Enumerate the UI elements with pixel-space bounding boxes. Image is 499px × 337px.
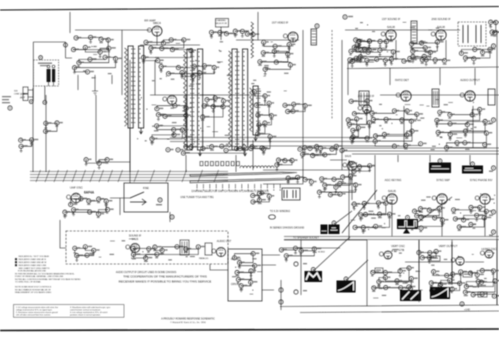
svg-text:2. Resistance values measured: 2. Resistance values measured to chassis… — [16, 311, 58, 314]
right edge part r4 — [491, 210, 495, 214]
wire 2nd IF coil drop — [348, 62, 374, 95]
svg-text:positions shown in normal oper: positions shown in normal operation. — [70, 313, 101, 316]
RF coil strip L1/L2 (wafer 1) — [125, 46, 144, 134]
fine tuning cap — [158, 198, 162, 202]
height adj box — [431, 256, 440, 261]
deflection bottom rails — [280, 305, 499, 313]
scope photo 2 (adjacent) — [321, 225, 328, 235]
wire IF bus top — [236, 12, 299, 40]
component cluster: horiz afc parts — [465, 271, 495, 295]
wire: audio B+ risers — [390, 68, 475, 85]
circled ref label near top — [343, 15, 347, 19]
svg-text:INDICATES B+ “HOT” VOLTAGE: INDICATES B+ “HOT” VOLTAGE — [19, 255, 50, 258]
wire video IF plate line — [302, 30, 304, 170]
svg-text:AUDIO OUT: AUDIO OUT — [217, 239, 232, 243]
svg-text:NOTED ALL CONTROLS NORMAL SETT: NOTED ALL CONTROLS NORMAL SETTING AT VOL… — [15, 278, 81, 281]
svg-text:TO SPEAKER SOCKET: TO SPEAKER SOCKET — [293, 236, 319, 239]
svg-text:300: 300 — [14, 91, 18, 93]
sync section left rail — [349, 160, 375, 236]
svg-text:with all tubes removed from th: with all tubes removed from their socket… — [16, 313, 51, 316]
svg-text:FINE: FINE — [143, 187, 149, 190]
balun label smudge — [38, 63, 52, 64]
component cluster: keying line — [288, 177, 311, 179]
svg-text:USE TUNER T71A AND T7B1: USE TUNER T71A AND T7B1 — [180, 196, 214, 199]
leader line to scope photo — [342, 190, 452, 233]
tube V6 1ST SOUND IF 6AU8 — [381, 25, 396, 40]
tube V12 SYNC PHASE INV — [475, 194, 490, 204]
component cluster: alt audio input — [75, 247, 94, 256]
wire 4.5mc stage feeds — [330, 160, 375, 200]
component cluster: 1st sound IF parts — [356, 41, 393, 57]
horiz drive adj box — [463, 272, 472, 277]
wire: bottom left drop — [33, 160, 46, 172]
svg-text:TO 6.3V WINDING: TO 6.3V WINDING — [270, 210, 290, 213]
wire video IF screen line — [341, 40, 343, 170]
svg-text:1. DC voltage measurements ta: 1. DC voltage measurements taken with vt… — [16, 306, 58, 309]
svg-text:6AF4A: 6AF4A — [84, 191, 95, 195]
component cluster: sound IF cathode row — [352, 58, 444, 61]
tube V18 4.5MC sound IF 6AU6 — [343, 161, 357, 170]
svg-text:AGC KEYING: AGC KEYING — [385, 178, 402, 182]
component cluster: RF amp grid/plate parts — [144, 40, 192, 61]
svg-text:VERT OUTPUT: VERT OUTPUT — [439, 244, 458, 248]
component cluster: 2nd IF coil group — [354, 40, 369, 49]
B+ feed component — [460, 302, 464, 306]
wire: right edge B+ rail — [496, 30, 498, 305]
scope photo: composite video — [329, 211, 353, 234]
trap top terminal — [315, 24, 319, 28]
tube V17 alt audio out 6AQ5 — [212, 247, 226, 256]
svg-text:6BC4: 6BC4 — [153, 21, 161, 25]
wire: right vertical trunk — [419, 240, 452, 290]
balun transformer black bars — [47, 69, 51, 82]
switch position ticks — [196, 184, 198, 189]
transformer windings — [284, 190, 296, 198]
component cluster: UHF osc parts — [65, 199, 108, 214]
svg-text:6SN7GTB: 6SN7GTB — [392, 248, 404, 252]
svg-text:RECEIVER MAKES IT POSSIBLE TO: RECEIVER MAKES IT POSSIBLE TO BRING YOU … — [119, 280, 212, 284]
component cluster: 2nd sound IF parts — [412, 42, 438, 57]
component cluster: video IF decoupling — [251, 92, 272, 149]
svg-text:4. Line voltage maintained at: 4. Line voltage maintained at 117v; all … — [70, 311, 107, 314]
component cluster: AGC keying parts — [354, 203, 389, 228]
scope photo stand — [403, 229, 410, 234]
right edge part r5 — [491, 230, 495, 234]
component cluster: ratio det output — [461, 49, 490, 58]
component cluster: volume control — [349, 101, 369, 138]
deflection section top rail (double) — [284, 237, 499, 240]
left margin tiny label — [2, 96, 11, 97]
svg-text:6AU6: 6AU6 — [388, 189, 396, 193]
wire: crt box link — [210, 264, 228, 270]
scope photo: vert sawtooth B — [430, 284, 450, 300]
component cluster: alt audio parts — [133, 247, 198, 258]
wire AGC bus — [250, 145, 375, 147]
component cluster: 4.5mc trap parts — [285, 104, 305, 111]
wire: IF grid returns — [155, 60, 250, 137]
component cluster: video det area — [303, 146, 337, 155]
IF trap T1 — [311, 29, 317, 45]
component cluster: audio output parts — [437, 110, 487, 148]
component cluster: converter plate circuit — [46, 123, 57, 131]
scope photo: horiz sweep — [337, 260, 369, 293]
channel selector switch shaft (lower bar) — [190, 178, 300, 182]
annotation texture: input filter — [93, 54, 97, 56]
svg-text:INDICATES CHAS GND AT M: INDICATES CHAS GND AT M — [19, 261, 47, 264]
IF coil strip L7 (wafer 4) — [250, 86, 261, 141]
tube V2 RF OSC 6AF4 — [163, 95, 177, 104]
alt audio output transformer — [205, 243, 212, 255]
sound IF transformer T-20 — [411, 21, 417, 43]
pilot lamp ellipse — [269, 215, 276, 219]
svg-text:REALIGNMENT OF VOLTAGES USED: REALIGNMENT OF VOLTAGES USED — [15, 291, 52, 294]
scope photo: sync pulse A — [429, 159, 451, 173]
svg-text:6AU6: 6AU6 — [345, 155, 352, 158]
component cluster: osc trimmer row — [277, 160, 292, 165]
svg-text:SELECTOR: SELECTOR — [215, 23, 227, 25]
component cluster: mixer input row — [212, 31, 253, 34]
component cluster: vert osc parts — [373, 268, 412, 288]
oscillator coil (scalloped) — [240, 166, 274, 168]
component cluster: rectifier filter — [253, 194, 269, 202]
RF coil strip L3/L4 (wafer 2) — [184, 49, 203, 156]
svg-text:PARALLEL: PARALLEL — [199, 257, 208, 260]
page top border rule — [0, 7, 499, 11]
annotation texture: alt audio box — [122, 240, 126, 241]
speaker terminal b — [279, 300, 283, 304]
sound IF section divider — [347, 67, 499, 69]
alt audio interstage transformer — [180, 240, 189, 255]
svg-text:CHANNEL: CHANNEL — [216, 19, 227, 22]
svg-text:A PROUDLY HOWARD RESPONSE: A PROUDLY HOWARD RESPONSE SCHEMATIC — [161, 318, 215, 321]
wire tuner left bus — [33, 88, 46, 160]
wire B+ bus 2 — [170, 141, 375, 143]
annotation texture: rf amp area — [160, 78, 162, 79]
svg-text:NO ALLOWANCE IN HIGH VALUE: NO ALLOWANCE IN HIGH VALUE OF — [15, 288, 51, 291]
annotation texture: deflection section — [420, 289, 422, 291]
component cluster: mixer grid parts — [161, 66, 214, 77]
wire antenna loop — [33, 42, 65, 95]
input zigzag coil — [251, 22, 254, 58]
switch index mark — [260, 191, 264, 195]
component cluster: oscillator parts — [152, 106, 186, 139]
wire oscillator bus — [150, 95, 215, 140]
tube V11 SYNC SEP 6AW8 — [432, 194, 447, 204]
wire RF amp to coils — [70, 12, 200, 95]
antenna terminal block — [23, 87, 28, 94]
right edge transformer — [488, 89, 495, 105]
component cluster: 4.5mc amp parts — [319, 176, 355, 195]
power transformer box — [282, 188, 300, 200]
svg-text:OHM: OHM — [14, 94, 19, 96]
scope photo: sync pulse B — [462, 162, 483, 174]
RF coil strip L5/L6 (wafer 3) — [229, 49, 248, 156]
svg-text:3. Waveforms taken with wide: 3. Waveforms taken with wide band scope;… — [70, 306, 110, 309]
annotation texture: tuner osc area — [188, 136, 193, 137]
speaker jack parts — [294, 262, 298, 266]
wire channel selector drop — [220, 27, 222, 40]
component cluster: CRT socket parts — [235, 254, 255, 286]
right edge part r3 — [491, 166, 495, 170]
wire: tuner to IF link — [236, 140, 303, 184]
svg-text:SYNC SEP: SYNC SEP — [436, 178, 450, 182]
svg-text:2ND SOUND IF: 2ND SOUND IF — [432, 17, 451, 21]
svg-text:+140: +140 — [464, 308, 470, 312]
svg-text:1ST SOUND IF: 1ST SOUND IF — [382, 17, 401, 21]
component cluster: vert int parts — [419, 252, 436, 258]
tube V16 alt sound IF 6AU6 — [126, 243, 140, 252]
svg-text:INDICATES CHAS GND AT B: INDICATES CHAS GND AT B — [19, 258, 47, 261]
deflection section left rail — [366, 240, 368, 306]
annotation texture: video IF col — [284, 73, 288, 74]
tube V14 VERT OUTPUT 6AQ5 — [451, 257, 464, 265]
svg-text:IN THIS RECEIVER ALL DC VOLTA: IN THIS RECEIVER ALL DC VOLTAGES MEASURE… — [15, 272, 75, 275]
wire UHF osc output — [110, 198, 130, 215]
wiring harness bundle (hatched) — [30, 172, 228, 181]
ratio detector transformer (dashed shield) — [458, 22, 486, 46]
wire: bottom bus risers — [375, 155, 470, 165]
svg-text:1ST VIDEO IF: 1ST VIDEO IF — [272, 21, 289, 25]
annotation texture: sync section — [426, 196, 430, 197]
component cluster: 1st video IF parts — [260, 42, 291, 69]
annotation texture: audio section — [417, 120, 421, 121]
speaker terminal a — [279, 288, 283, 292]
wire antenna feeds — [28, 86, 45, 101]
wire B+ bus 1 — [170, 137, 375, 139]
component cluster: sound takeoff coil area — [348, 119, 358, 137]
vert lin adj box — [375, 268, 383, 273]
svg-text:SYNC PHASE INV: SYNC PHASE INV — [470, 178, 493, 182]
component cluster: phase inv parts — [454, 208, 487, 228]
wire focus line — [280, 280, 282, 310]
svg-text:© Howard W. Sams & Co., Inc. 1: © Howard W. Sams & Co., Inc. 1954 — [170, 321, 206, 324]
ground symbol below RF filter — [92, 88, 98, 95]
scope photo: video waveform at sync sep — [397, 216, 418, 230]
svg-text:UHF OSC: UHF OSC — [70, 186, 83, 190]
svg-text:POINT OF RESIDUAL GENERAL. US: POINT OF RESIDUAL GENERAL. USE VTVM LINE — [15, 275, 64, 278]
page bottom border rule — [0, 329, 499, 331]
right edge part r1 — [491, 44, 495, 48]
wire: IF to sync link — [303, 169, 349, 171]
scope photo: vert sawtooth A — [400, 287, 421, 302]
svg-text:control locked, contrast at ma: control locked, contrast at maximum. — [70, 308, 101, 311]
wire: tuner AGC runs — [96, 95, 130, 172]
svg-text:AUDIO OUTPUT: AUDIO OUTPUT — [460, 78, 480, 82]
sound takeoff transformer — [359, 91, 369, 105]
annotation texture: crt box — [252, 290, 253, 291]
tube V1 RF AMP 6BC4 — [147, 21, 162, 36]
tube V9 AUDIO OUTPUT 6AQ5 — [460, 91, 475, 101]
component cluster: sound takeoff — [350, 50, 361, 60]
tube V10 AGC KEYING 6AU6 — [382, 189, 397, 204]
annotation texture: sound IF strip — [426, 52, 430, 53]
left margin component — [8, 106, 12, 110]
ratio det coils — [463, 25, 481, 43]
balun shield box (dashed) — [33, 60, 58, 86]
wire: agc return — [284, 236, 367, 240]
ant lead part a — [29, 100, 33, 104]
audio output transformer — [432, 89, 439, 107]
wire: video out to CRT — [263, 170, 303, 184]
svg-text:RED-BLK: RED-BLK — [231, 259, 241, 261]
component cluster: mixer parts — [203, 98, 224, 117]
wire RF filter verticals — [66, 58, 113, 90]
channel selector strip box — [216, 19, 229, 28]
svg-text:THE COOPERATION OF THE MANUFAC: THE COOPERATION OF THE MANUFACTURERS OF … — [123, 275, 207, 279]
alternate audio circuit box (dashed) — [66, 231, 228, 264]
wire heater bus — [342, 148, 499, 154]
wire: main vertical trunk left — [130, 60, 186, 183]
tube V4 1ST VIDEO IF 6AU6 — [283, 32, 298, 42]
width adj box — [478, 292, 487, 297]
svg-text:2ND VIDEO IF: 2ND VIDEO IF — [358, 95, 375, 98]
svg-text:6AU8: 6AU8 — [387, 25, 395, 29]
fine tuning terminal — [170, 215, 174, 219]
svg-text:RATIO DET: RATIO DET — [395, 78, 409, 82]
component cluster: sync sep parts — [413, 208, 443, 226]
antenna loop corner terminal — [64, 43, 68, 47]
wire: vert output link — [405, 261, 484, 263]
tube V5 2ND VIDEO IF 6CB6 — [358, 105, 371, 114]
svg-text:voltage maintained at 117v; no: voltage maintained at 117v; no signal in… — [16, 308, 53, 311]
svg-text:INDICATES CHAS GND LINE: INDICATES CHAS GND LINE — [19, 264, 47, 267]
component cluster: antenna coupling — [21, 140, 32, 146]
wire fine tuning drop — [169, 212, 171, 222]
wire yoke leads — [262, 255, 280, 290]
wire: sync to deflection drops — [392, 205, 485, 236]
svg-text:HORIZ: HORIZ — [318, 252, 325, 254]
svg-text:SOUND IF: SOUND IF — [129, 234, 142, 238]
tube V8 1ST AUDIO 6AV6 — [396, 91, 411, 101]
svg-text:TO GRID FULL OF SIGNAL: TO GRID FULL OF SIGNAL — [15, 281, 42, 284]
svg-text:FOR RE-INSTALLATION USE: FOR RE-INSTALLATION USE — [18, 270, 46, 273]
component cluster: vert output parts — [431, 272, 460, 292]
svg-text:GRN-BLK: GRN-BLK — [231, 284, 242, 286]
component cluster: speaker coupling — [281, 248, 314, 256]
ant lead part b — [43, 101, 47, 105]
svg-text:AUDIO OUTPUT IF CIRCUIT US: AUDIO OUTPUT IF CIRCUIT USED IN SOME CHA… — [116, 271, 177, 274]
tube V7 2ND SOUND IF 6AU8 — [431, 25, 446, 40]
tube V13 VERT OSC 6SN7GTB — [379, 251, 392, 259]
balun top terminal — [39, 56, 43, 60]
svg-text:VERT OSC: VERT OSC — [391, 244, 405, 248]
wire sound IF coupling — [345, 30, 460, 60]
fine tuning switch box — [124, 183, 168, 212]
wire audio plate lines — [380, 95, 499, 148]
wire video IF shield (dashed) — [331, 30, 333, 120]
fine tuning pot — [130, 192, 146, 205]
component cluster: sync input row — [350, 164, 369, 172]
service notes box — [14, 305, 125, 318]
wire: deflection internal rails — [419, 240, 497, 305]
switch contact row — [200, 162, 203, 166]
right edge part r2 — [491, 118, 495, 122]
channel selector switch shaft (upper bar) — [190, 172, 297, 176]
svg-text:IN SERIES CHASSIS GROUND: IN SERIES CHASSIS GROUND — [270, 227, 305, 230]
wire speaker drop — [283, 240, 340, 295]
component cluster: top right corner parts — [491, 22, 496, 32]
component cluster: IF agc row — [183, 146, 244, 153]
component cluster: AGC line parts — [86, 160, 107, 163]
wire: noise gate feed — [60, 220, 66, 248]
tube V3 UHF OSC 6AF4A — [67, 193, 81, 203]
tube V15 HORIZ OSC 6SN7GTB — [480, 250, 493, 258]
picture tube socket box — [228, 249, 262, 301]
component cluster: RF input filter — [74, 37, 116, 72]
svg-text:NOTE SOME HIGH VOLT CONTROL: NOTE SOME HIGH VOLT CONTROLS — [15, 287, 52, 289]
scope photo: vertical blanking W — [305, 237, 351, 282]
component cluster: 1st audio parts — [372, 111, 421, 146]
svg-text:ANT: ANT — [20, 96, 25, 99]
components on B+ bus row — [166, 148, 170, 152]
